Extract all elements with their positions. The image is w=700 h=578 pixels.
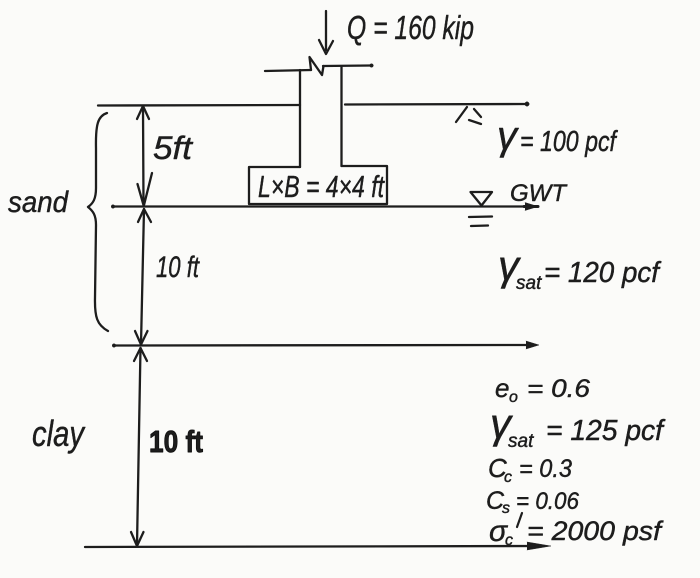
- dimension 10ft clay arrow: [131, 348, 147, 546]
- label e0 = 0.6: [495, 373, 590, 406]
- svg-text:c: c: [504, 469, 512, 486]
- svg-text:= 2000 psf: = 2000 psf: [527, 516, 664, 546]
- svg-text:10 ft: 10 ft: [156, 251, 200, 284]
- sand brace: [88, 113, 108, 331]
- ground hatch mark: [456, 107, 481, 124]
- svg-text:sat: sat: [516, 273, 542, 294]
- svg-text:= 100 pcf: = 100 pcf: [520, 126, 618, 158]
- svg-text:L×B = 4×4 ft: L×B = 4×4 ft: [258, 169, 385, 204]
- svg-text:= 0.06: = 0.06: [516, 488, 580, 515]
- GWT line: [111, 203, 538, 211]
- column right line: [340, 67, 342, 166]
- dimension 5ft arrow: [137, 106, 152, 205]
- ground line left: [98, 104, 300, 107]
- svg-text:GWT: GWT: [510, 180, 568, 207]
- label gamma = 100 pcf: [497, 114, 618, 158]
- svg-text:= 0.3: = 0.3: [519, 455, 572, 483]
- GWT triangle symbol: [471, 192, 493, 206]
- label sigma c = 2000 psf: [489, 513, 664, 549]
- label Cs = 0.06: [486, 487, 580, 517]
- svg-text:e: e: [495, 373, 509, 403]
- load arrow Q: [319, 11, 333, 54]
- svg-text:Q = 160 kip: Q = 160 kip: [347, 9, 474, 46]
- svg-text:clay: clay: [32, 413, 86, 454]
- dimension 10ft sand arrow: [135, 209, 151, 345]
- svg-text:10 ft: 10 ft: [149, 424, 203, 459]
- column break symbol: [265, 57, 373, 75]
- svg-text:5ft: 5ft: [153, 130, 193, 166]
- ground line right: [345, 102, 529, 106]
- interface line sand/clay: [112, 341, 539, 349]
- svg-text:sand: sand: [8, 186, 69, 219]
- label gamma sat 125: [490, 400, 666, 452]
- svg-text:sat: sat: [508, 431, 534, 452]
- footing outline: [249, 166, 387, 204]
- svg-text:= 0.6: = 0.6: [527, 375, 590, 403]
- label gamma sat 120: [498, 242, 662, 294]
- label Cc = 0.3: [488, 453, 572, 486]
- column left line: [299, 70, 301, 167]
- bottom line: [85, 542, 551, 550]
- svg-text:= 120 pcf: = 120 pcf: [544, 257, 662, 289]
- svg-text:= 125 pcf: = 125 pcf: [546, 415, 666, 447]
- svg-text:γ: γ: [497, 114, 519, 158]
- GWT underline dashes: [469, 217, 492, 227]
